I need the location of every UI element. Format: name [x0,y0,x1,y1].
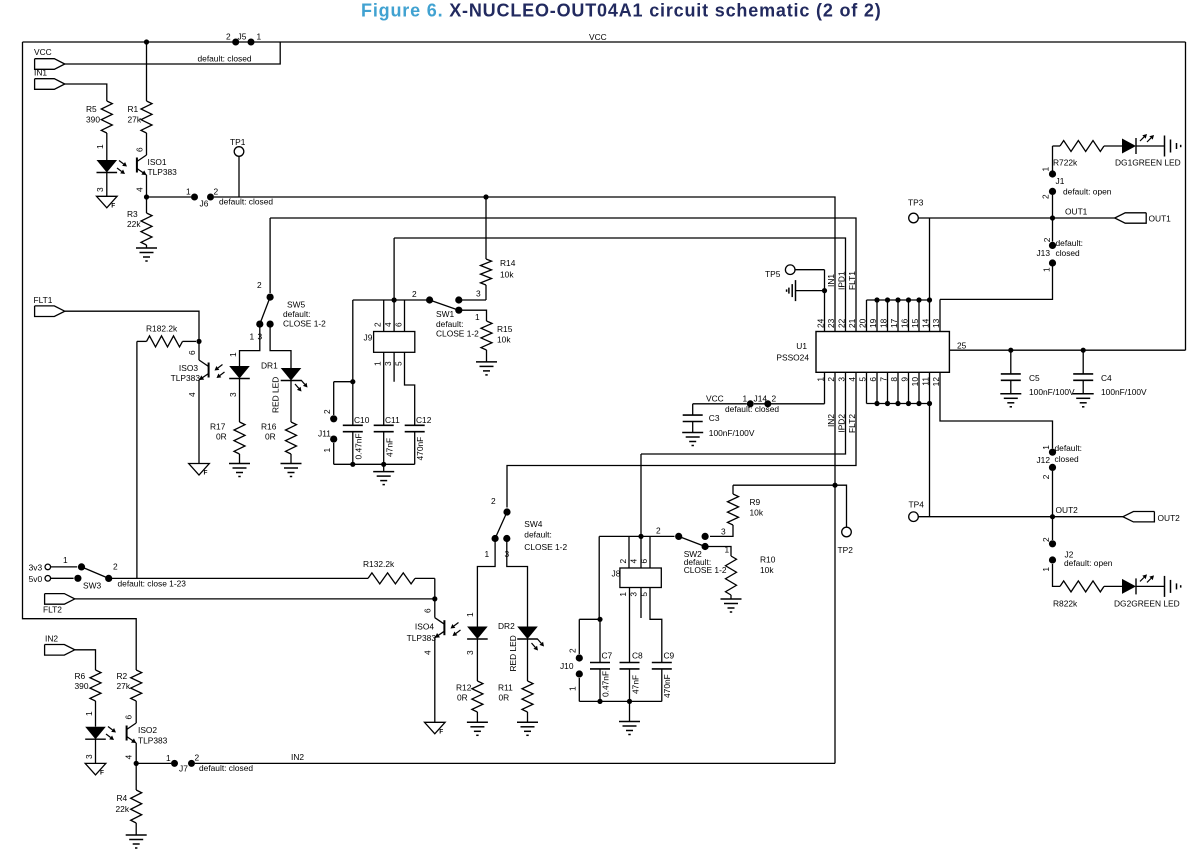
svg-text:R12: R12 [456,683,472,693]
opto ISO3 input LED [228,324,260,422]
svg-text:R3: R3 [127,209,138,219]
capacitor C12 [405,352,432,464]
svg-text:TP5: TP5 [765,269,781,279]
svg-text:3: 3 [721,527,726,537]
wire VCC top rail [23,32,1186,42]
svg-text:27k: 27k [128,115,142,125]
svg-text:default: open: default: open [1063,187,1112,197]
svg-text:default: close 1-23: default: close 1-23 [118,579,187,589]
svg-text:10k: 10k [760,565,774,575]
ground DG1 [1165,136,1181,157]
svg-text:PSSO24: PSSO24 [776,353,809,363]
svg-text:1: 1 [373,361,383,366]
svg-text:default: open: default: open [1064,558,1113,568]
svg-text:R17: R17 [210,422,226,432]
resistor R14 [481,197,516,300]
wire U1 pin13 stub [939,299,941,331]
svg-text:6: 6 [394,322,404,327]
svg-text:J5: J5 [238,32,247,42]
svg-text:0R: 0R [499,693,510,703]
svg-text:10k: 10k [750,508,764,518]
switch SW2 [656,526,730,576]
resistor R1 [128,42,153,133]
led DG2 green [1114,574,1180,608]
svg-text:ISO3: ISO3 [179,363,198,373]
svg-text:47nF: 47nF [631,675,641,694]
connector VCC [34,47,65,69]
ground cap rail ch1 [373,464,394,484]
resistor R2 [117,670,142,701]
svg-text:3: 3 [476,289,481,299]
svg-text:OUT2: OUT2 [1158,513,1181,523]
connector OUT2 [1123,512,1180,524]
svg-text:4: 4 [187,392,197,397]
svg-text:5: 5 [639,592,649,597]
resistor R12 [456,681,483,722]
wire U1 pin14 to OUT1 line [929,218,931,300]
svg-text:RED LED: RED LED [508,635,518,671]
svg-text:TLP383: TLP383 [407,633,437,643]
svg-text:2: 2 [568,648,578,653]
wire J9 top rail [353,299,430,301]
ground R15 [476,362,497,375]
U1 pin labels IN1 IPD1 FLT1 [826,271,857,290]
svg-text:VCC: VCC [706,394,724,404]
svg-text:1: 1 [1041,167,1051,172]
capacitor C5 [1001,348,1075,397]
svg-text:R4: R4 [117,793,128,803]
wire cap bottom rail ch1 [334,463,415,465]
wire J13 to U1 pin13 [940,267,1053,300]
svg-text:VCC: VCC [589,32,607,42]
svg-text:2: 2 [214,187,219,197]
svg-text:C3: C3 [709,413,720,423]
svg-text:390: 390 [75,681,89,691]
wire net IN1 to U1 pin23 [214,197,835,332]
svg-text:2: 2 [1042,237,1052,242]
node J11 rail junction [350,379,355,384]
node VCC junction R1 [144,39,149,44]
connector IN1 [34,68,65,90]
svg-text:default:: default: [524,530,551,540]
ground R17 [229,464,250,477]
U1 pin labels IN2 IPD2 FLT2 [826,414,857,433]
wire IN1 to R5 [65,84,107,101]
svg-text:IPD1: IPD1 [837,271,847,290]
svg-text:DG1GREEN LED: DG1GREEN LED [1115,158,1181,168]
test point TP2 [835,485,853,555]
svg-text:ISO4: ISO4 [415,622,434,632]
svg-text:IN2: IN2 [291,752,304,762]
resistor R13 2.2k [109,559,435,584]
svg-text:22k: 22k [116,804,130,814]
svg-text:22: 22 [837,318,847,328]
svg-text:10k: 10k [500,270,514,280]
svg-text:default:: default: [283,309,310,319]
svg-text:DR1: DR1 [261,361,278,371]
wire VCC right rail [1185,42,1187,350]
svg-text:VCC: VCC [34,47,52,57]
svg-text:R132.2k: R132.2k [363,559,395,569]
svg-text:1: 1 [63,555,68,565]
svg-text:default: closed: default: closed [199,763,253,773]
svg-text:470nF: 470nF [662,674,672,698]
frame ground ISO3 pin4 [189,464,210,477]
jumper J14 [725,394,779,415]
svg-text:J8: J8 [612,569,621,579]
svg-text:R822k: R822k [1053,599,1078,609]
svg-text:4: 4 [629,559,639,564]
svg-text:OUT1: OUT1 [1149,214,1172,224]
svg-text:C10: C10 [354,415,370,425]
svg-text:2: 2 [113,562,118,572]
jumper J6 [147,187,274,209]
ground R3 [136,248,157,261]
svg-text:default: closed: default: closed [198,54,252,64]
wire U1 bottom pin bar 5-11 [867,372,933,406]
switch SW1 [412,289,486,339]
svg-text:25: 25 [957,341,967,351]
jumper J12 [1036,443,1082,517]
wire IPD2 net U1 pin3 [641,372,846,454]
svg-text:100nF/100V: 100nF/100V [1029,387,1075,397]
resistor R3 [127,197,152,248]
svg-text:1: 1 [95,144,105,149]
svg-text:22k: 22k [127,219,141,229]
svg-text:SW4: SW4 [524,519,542,529]
wire FLT1 net to U1 pin21 [270,218,856,332]
opto ISO2 transistor [106,701,168,760]
svg-text:TP2: TP2 [838,545,854,555]
svg-text:Figure 6. X-NUCLEO-OUT04A1 cir: Figure 6. X-NUCLEO-OUT04A1 circuit schem… [361,1,882,21]
svg-text:47nF: 47nF [385,438,395,457]
svg-text:5: 5 [394,361,404,366]
test point TP3 [908,198,924,223]
connector J9 [364,300,415,366]
svg-text:J9: J9 [364,333,373,343]
ground C5 [1000,394,1021,407]
svg-text:1: 1 [743,394,748,404]
svg-text:CLOSE 1-2: CLOSE 1-2 [436,329,479,339]
wire OUT2 line [918,505,1123,517]
svg-text:27k: 27k [117,681,131,691]
opto ISO2 input LED [84,701,106,763]
svg-text:C9: C9 [664,651,675,661]
svg-text:100nF/100V: 100nF/100V [709,428,755,438]
svg-text:C5: C5 [1029,373,1040,383]
ground R12 [467,722,488,735]
svg-text:3: 3 [383,361,393,366]
svg-text:J12: J12 [1036,455,1050,465]
jumper J1 [1041,146,1112,218]
resistor R18 2.2k [137,324,196,347]
wire net IN2 to U1 pin2 [195,752,835,763]
wire VCC flag to rail [65,42,280,64]
led DR1 [261,324,308,422]
opto ISO4 input LED [465,539,495,682]
frame ground ISO2 pin3 [85,763,106,776]
svg-text:R14: R14 [500,258,516,268]
svg-text:FLT1: FLT1 [847,271,857,290]
resistor R16 [261,422,297,464]
node OUT2 junction [1050,514,1055,519]
resistor R5 [86,101,112,133]
svg-text:1: 1 [618,592,628,597]
svg-text:1: 1 [166,753,171,763]
svg-text:R9: R9 [750,497,761,507]
wire U1 pin12 to J12 [940,372,1053,448]
svg-text:3: 3 [228,392,238,397]
wire FLT2 net U1 pin4 [507,372,856,507]
svg-text:R2: R2 [117,671,128,681]
svg-text:2: 2 [491,496,496,506]
wire IN2 net U1 pin2 [834,372,836,763]
svg-text:CLOSE 1-2: CLOSE 1-2 [684,565,727,575]
svg-text:1: 1 [568,686,578,691]
svg-text:0.47nF: 0.47nF [601,671,611,697]
capacitor C7 [590,619,613,704]
resistor R4 [116,763,142,835]
node J9 pin4 junction [392,297,397,302]
svg-text:RED LED: RED LED [271,377,281,413]
jumper J11 [318,382,353,465]
wire J9 left drop [352,300,354,382]
wire OUT1 line [918,207,1114,219]
svg-text:0R: 0R [265,432,276,442]
resistor R17 [210,422,245,464]
wire IPD1 net to U1 pin22 [394,238,845,332]
svg-text:4: 4 [423,650,433,655]
svg-text:default:: default: [1055,443,1082,453]
ground R11 [517,722,538,735]
svg-text:IN1: IN1 [826,274,836,287]
svg-text:R11: R11 [498,683,513,693]
connector IN2 [45,634,75,656]
wire FLT1 to ISO3 [65,311,199,341]
ground TP5 [787,280,825,301]
svg-text:3: 3 [95,187,105,192]
svg-text:10k: 10k [497,335,511,345]
svg-text:SW5: SW5 [287,300,305,310]
svg-text:1: 1 [84,711,94,716]
svg-text:2: 2 [322,409,332,414]
svg-text:1: 1 [475,312,480,322]
svg-text:1: 1 [250,332,255,342]
svg-text:IN1: IN1 [34,68,47,78]
svg-text:TP4: TP4 [909,500,925,510]
title [361,1,882,21]
test point TP5 [765,265,795,279]
led DG1 green [1115,134,1181,168]
wire J8 left drop [598,536,600,618]
svg-text:DG2GREEN LED: DG2GREEN LED [1114,599,1180,609]
svg-text:C8: C8 [632,651,643,661]
opto ISO1 input LED [95,133,117,196]
wire J8 top rail [599,535,674,537]
resistor R9 [710,485,835,536]
svg-text:6: 6 [135,147,145,152]
svg-text:1: 1 [322,448,332,453]
frame ground ISO4 pin4 [425,722,446,735]
capacitor C4 [1073,348,1147,397]
U1 top pin numbers [816,318,942,328]
capacitor C9 [650,588,675,702]
svg-text:0R: 0R [216,432,227,442]
svg-text:J14: J14 [754,394,768,404]
svg-text:1: 1 [257,32,262,42]
ground DG2 [1165,576,1181,597]
svg-text:5v0: 5v0 [29,574,43,584]
wire R13 to ISO4 [434,578,436,599]
node ISO3 collector junction [196,339,201,344]
wire cap bottom rail ch2 [579,700,662,702]
resistor R10 [705,547,776,600]
svg-text:3: 3 [84,754,94,759]
svg-text:6: 6 [124,715,134,720]
svg-text:OUT2: OUT2 [1056,505,1079,515]
ground C4 [1073,394,1094,407]
jumper J7 [136,753,253,774]
resistor R11 [498,681,533,722]
wire U1 pin11 to OUT2 line [929,404,931,517]
svg-text:470nF: 470nF [415,437,425,461]
node J8 pin4 junction [638,534,643,539]
svg-text:23: 23 [826,318,836,328]
svg-text:6: 6 [423,608,433,613]
node IN2 TP2 junction [832,483,837,488]
wire C7 top rail [579,618,600,620]
connector FLT1 [34,295,65,317]
switch SW5 [250,218,327,342]
svg-text:R15: R15 [497,324,513,334]
svg-text:R182.2k: R182.2k [146,324,178,334]
node OUT1 junction [1050,215,1055,220]
svg-text:R6: R6 [75,671,86,681]
svg-text:21: 21 [847,318,857,328]
capacitor C11 [374,352,400,467]
connector J8 [612,536,662,596]
opto ISO3 transistor [171,341,225,397]
svg-text:R16: R16 [261,422,277,432]
svg-text:F: F [204,470,208,477]
svg-text:0.47nF: 0.47nF [354,433,364,459]
svg-text:3: 3 [465,650,475,655]
svg-text:TP1: TP1 [230,137,246,147]
svg-text:1: 1 [1041,445,1051,450]
frame ground ISO1 pin3 [97,196,118,209]
opto ISO4 transistor [407,599,461,655]
svg-text:U1: U1 [796,341,807,351]
ground R16 [281,464,302,477]
wire ISO3 emitter [198,380,200,464]
resistor R8 22k [1053,564,1123,609]
svg-text:DR2: DR2 [498,621,515,631]
resistor R15 [459,310,513,362]
connector FLT2 [43,594,75,615]
svg-text:ISO1: ISO1 [148,157,167,167]
capacitor C8 [620,588,644,705]
svg-text:2: 2 [1041,537,1051,542]
svg-text:TLP383: TLP383 [148,167,178,177]
node R14 tap [483,194,488,199]
svg-text:OUT1: OUT1 [1065,207,1088,217]
svg-text:R722k: R722k [1053,158,1078,168]
svg-text:J7: J7 [179,764,188,774]
svg-text:2: 2 [1041,194,1051,199]
IC U1 PSSO24 [776,332,949,373]
svg-text:FLT1: FLT1 [34,295,53,305]
wire IN2 to R6 [75,650,96,670]
svg-text:6: 6 [187,350,197,355]
node ISO2 emitter junction [134,743,139,766]
ground R10 [721,599,742,612]
svg-text:C4: C4 [1101,373,1112,383]
svg-text:F: F [100,769,104,776]
wire U1 pin25 VCC [949,341,1185,351]
svg-text:2: 2 [772,394,777,404]
jumper J5 [198,32,262,64]
wire FLT2 flag to ISO4 [75,598,435,600]
wire J8 pin4 column [640,454,642,618]
svg-text:R1: R1 [128,104,139,114]
svg-text:1: 1 [1042,267,1052,272]
svg-text:TLP383: TLP383 [138,736,168,746]
svg-text:2: 2 [1041,474,1051,479]
svg-text:1: 1 [465,612,475,617]
svg-text:C12: C12 [416,415,432,425]
wire VCC to U1 pin1 [693,372,825,404]
svg-text:default:: default: [1056,238,1083,248]
svg-text:default: closed: default: closed [725,404,779,414]
led DR2 [498,539,544,682]
resistor R7 22k [1053,141,1123,168]
wire U1 top pin bar 19-14 [867,297,933,331]
svg-text:2: 2 [618,559,628,564]
wire TP5 to U1 pin24 [795,270,824,332]
svg-text:ISO2: ISO2 [138,725,157,735]
svg-text:1: 1 [186,187,191,197]
svg-text:closed: closed [1055,454,1080,464]
svg-text:J10: J10 [560,661,574,671]
svg-text:2: 2 [257,280,262,290]
svg-text:R5: R5 [86,104,97,114]
switch SW3 [29,555,187,591]
node ISO4 collector junction [432,596,437,601]
svg-text:default:: default: [436,319,463,329]
svg-text:0R: 0R [457,693,468,703]
svg-text:2: 2 [373,322,383,327]
svg-text:J11: J11 [318,429,331,439]
svg-text:390: 390 [86,115,100,125]
svg-text:2: 2 [656,526,661,536]
ground C3 [682,433,703,446]
jumper J13 [1036,218,1083,272]
capacitor C10 [343,382,370,467]
svg-text:F: F [439,728,443,735]
switch SW4 [485,496,568,559]
svg-text:FLT2: FLT2 [43,605,62,615]
capacitor C3 [683,404,755,438]
svg-text:100nF/100V: 100nF/100V [1101,387,1147,397]
jumper J10 [560,619,583,701]
svg-text:SW3: SW3 [83,581,101,591]
svg-text:CLOSE 1-2: CLOSE 1-2 [283,319,326,329]
node ISO1 emitter junction [144,175,149,200]
opto ISO1 transistor [117,133,177,192]
svg-text:1: 1 [228,352,238,357]
svg-text:3v3: 3v3 [29,563,43,573]
svg-text:IN2: IN2 [45,634,58,644]
